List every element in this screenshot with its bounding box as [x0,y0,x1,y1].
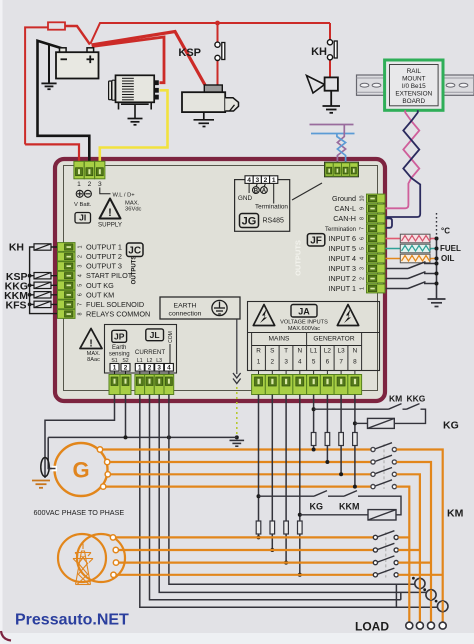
svg-text:RAIL: RAIL [407,68,422,75]
svg-text:3: 3 [77,265,83,268]
svg-text:Termination: Termination [325,227,356,233]
svg-text:INPUT 3: INPUT 3 [329,264,356,273]
svg-text:GND: GND [238,195,253,202]
svg-text:5: 5 [312,359,316,366]
svg-text:8: 8 [77,313,83,316]
svg-text:JP: JP [114,332,125,342]
svg-text:OUTPUT 3: OUTPUT 3 [86,262,122,271]
svg-text:A: A [262,189,267,195]
svg-text:1: 1 [272,177,276,184]
svg-text:6: 6 [359,237,365,240]
svg-text:INPUT 4: INPUT 4 [329,254,356,263]
svg-text:1: 1 [257,359,261,366]
svg-text:S: S [270,348,274,355]
svg-text:CURRENT: CURRENT [135,349,165,356]
svg-text:I/0 Be15: I/0 Be15 [402,83,426,90]
svg-text:B: B [254,189,259,195]
svg-text:3: 3 [157,365,161,372]
svg-text:INPUT 6: INPUT 6 [329,234,356,243]
svg-text:1: 1 [138,365,142,372]
svg-text:OUTPUTS: OUTPUTS [132,256,138,285]
svg-text:JA: JA [298,306,310,316]
svg-text:W.L / D+: W.L / D+ [113,192,136,198]
svg-text:KKM: KKM [339,502,360,512]
svg-text:L3: L3 [338,348,346,355]
svg-text:2: 2 [88,181,92,188]
svg-text:7: 7 [359,227,365,230]
svg-text:Termination: Termination [255,204,288,211]
svg-text:KFS: KFS [6,300,27,312]
svg-text:2: 2 [148,365,152,372]
svg-text:OUTPUT 2: OUTPUT 2 [86,252,122,261]
svg-text:2: 2 [359,277,365,280]
svg-text:8Aac: 8Aac [87,357,100,363]
svg-text:!: ! [89,339,92,350]
svg-text:KM: KM [389,394,402,404]
svg-text:4: 4 [167,365,171,372]
svg-text:CAN-L: CAN-L [334,204,356,213]
svg-text:8: 8 [353,359,357,366]
svg-text:V Batt.: V Batt. [74,202,92,208]
svg-text:INPUT 5: INPUT 5 [329,244,356,253]
svg-text:JC: JC [128,246,141,257]
svg-text:START PILOT: START PILOT [86,271,133,280]
svg-text:L1: L1 [310,348,318,355]
svg-text:OIL: OIL [441,254,454,263]
svg-text:VOLTAGE INPUTS: VOLTAGE INPUTS [280,320,328,326]
svg-text:MAX.600Vac: MAX.600Vac [288,326,320,332]
svg-text:4: 4 [359,257,365,260]
svg-text:KSP: KSP [178,47,201,59]
svg-text:RELAYS COMMON: RELAYS COMMON [86,310,150,319]
svg-text:T: T [284,348,288,355]
svg-text:INPUT 1: INPUT 1 [329,284,356,293]
svg-text:GENERATOR: GENERATOR [313,336,354,343]
svg-text:JF: JF [310,235,322,246]
svg-text:7: 7 [77,303,83,306]
svg-text:KKG: KKG [407,394,426,404]
svg-text:JG: JG [242,216,257,228]
svg-text:EXTENSION: EXTENSION [395,91,432,98]
svg-text:6: 6 [77,293,83,296]
svg-text:3: 3 [359,267,365,270]
svg-text:COM: COM [168,331,174,343]
svg-text:5: 5 [77,284,83,287]
svg-text:KG: KG [443,420,459,432]
svg-text:1: 1 [359,287,365,290]
svg-text:3: 3 [284,359,288,366]
svg-text:7: 7 [339,359,343,366]
svg-text:2: 2 [77,255,83,258]
svg-text:2: 2 [124,365,128,372]
svg-text:INPUT 2: INPUT 2 [329,274,356,283]
svg-text:Earth: Earth [112,345,126,351]
svg-text:OUTPUTS: OUTPUTS [294,240,303,276]
svg-text:3: 3 [98,181,102,188]
svg-text:9: 9 [359,207,365,210]
svg-text:OUT KG: OUT KG [86,281,114,290]
svg-text:OUT KM: OUT KM [86,290,114,299]
svg-text:4: 4 [298,359,302,366]
svg-text:8: 8 [359,217,365,220]
svg-text:N: N [353,348,358,355]
svg-text:2: 2 [271,359,275,366]
svg-text:JI: JI [79,213,86,223]
svg-text:Ground: Ground [332,194,356,203]
svg-text:LOAD: LOAD [355,620,389,634]
svg-text:1: 1 [77,181,81,188]
svg-text:RS485: RS485 [263,218,285,225]
svg-text:5: 5 [359,247,365,250]
svg-text:Pressauto.NET: Pressauto.NET [15,612,129,629]
svg-text:10: 10 [359,196,365,202]
svg-text:BOARD: BOARD [402,98,425,105]
svg-text:°C: °C [441,227,450,236]
svg-text:G: G [72,458,89,483]
svg-text:N: N [297,348,302,355]
svg-text:1: 1 [77,246,83,249]
svg-text:600VAC PHASE TO PHASE: 600VAC PHASE TO PHASE [34,508,125,517]
svg-text:1: 1 [113,365,117,372]
svg-text:4: 4 [247,177,251,184]
svg-text:sensing: sensing [109,352,130,358]
svg-text:R: R [256,348,261,355]
svg-text:KH: KH [311,46,327,58]
svg-text:EARTH: EARTH [174,303,197,310]
svg-text:!: ! [108,207,112,219]
svg-text:3: 3 [255,177,259,184]
svg-text:2: 2 [264,177,268,184]
svg-text:FUEL: FUEL [440,244,461,253]
svg-text:L2: L2 [324,348,332,355]
svg-text:FUEL SOLENOID: FUEL SOLENOID [86,300,144,309]
svg-text:KG: KG [310,502,324,512]
svg-text:MAINS: MAINS [269,336,290,343]
svg-text:MOUNT: MOUNT [402,76,426,83]
svg-text:OUTPUT 1: OUTPUT 1 [86,243,122,252]
svg-text:6: 6 [326,359,330,366]
svg-text:connection: connection [169,311,202,318]
svg-text:36Vdc: 36Vdc [125,207,142,213]
svg-text:4: 4 [77,274,83,277]
svg-text:JL: JL [150,330,160,340]
svg-text:CAN-H: CAN-H [333,214,356,223]
svg-text:KH: KH [9,242,24,254]
svg-text:SUPPLY: SUPPLY [98,222,122,229]
svg-text:KM: KM [447,508,464,520]
